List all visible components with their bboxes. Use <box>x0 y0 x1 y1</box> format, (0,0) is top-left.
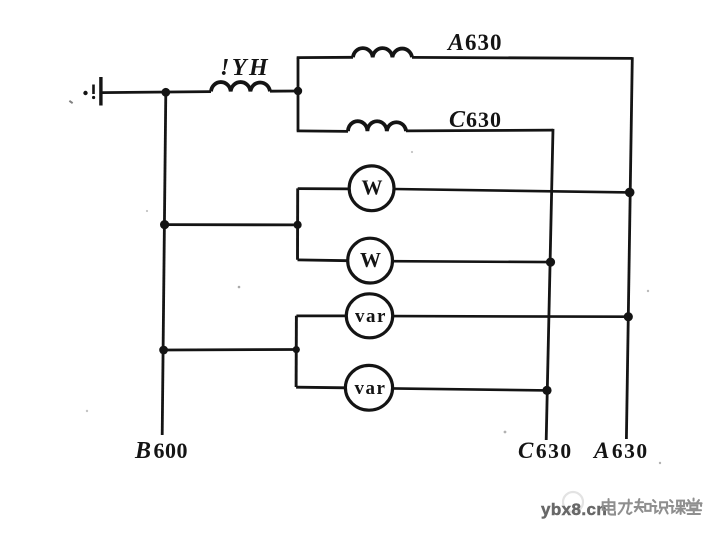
wire <box>296 386 346 389</box>
svg-text:!YH: !YH <box>220 55 270 81</box>
wire <box>393 260 551 263</box>
svg-text:var: var <box>355 306 387 327</box>
meter W2 <box>348 238 393 283</box>
wire <box>412 57 632 58</box>
node junction var1-A <box>624 312 633 321</box>
char shi <box>652 500 668 513</box>
svg-text:A630: A630 <box>446 30 503 56</box>
watermark ghost ring <box>563 492 583 512</box>
wire <box>406 129 553 133</box>
inductor A-phase CT <box>353 48 412 57</box>
wire <box>394 189 630 192</box>
wire <box>270 90 298 93</box>
wire <box>297 58 300 131</box>
terminal T1 <box>83 77 102 106</box>
scan specks <box>69 100 661 464</box>
wire <box>296 188 299 259</box>
char tang <box>686 499 702 515</box>
svg-text:W: W <box>362 176 383 200</box>
meter var1 <box>346 294 392 338</box>
wire <box>165 223 298 226</box>
wire <box>164 348 297 351</box>
node junction feeder-split <box>294 87 302 95</box>
node junction var2-C <box>542 386 551 395</box>
node junction W1-A <box>625 188 635 198</box>
char dian <box>603 499 615 515</box>
wire <box>295 316 298 387</box>
wire <box>298 187 349 190</box>
svg-text:W: W <box>360 248 381 272</box>
svg-text:A630: A630 <box>592 438 649 463</box>
node junction B-feed <box>161 88 170 97</box>
node junction W2-C <box>546 258 555 267</box>
wire B600 riser <box>162 92 166 435</box>
svg-text:C630: C630 <box>518 438 573 463</box>
wire <box>103 92 212 93</box>
wire <box>297 56 353 59</box>
watermark chinese <box>603 499 702 515</box>
wire <box>298 258 348 262</box>
wire <box>296 314 347 317</box>
meter var2 <box>345 365 392 410</box>
wire C630 riser <box>546 129 553 440</box>
wire <box>297 129 348 132</box>
node junction B-W <box>160 220 169 229</box>
svg-text:var: var <box>355 378 387 399</box>
inductor YH <box>211 82 270 91</box>
char li <box>619 500 632 514</box>
node junction var-bracket <box>293 346 300 353</box>
wire <box>392 388 547 390</box>
wire <box>392 315 629 318</box>
svg-text:B600: B600 <box>134 438 188 464</box>
inductor C-phase CT <box>348 121 406 131</box>
char zhi <box>635 499 651 512</box>
svg-text:ybx8.cn: ybx8.cn <box>541 500 607 519</box>
char ke <box>669 500 685 514</box>
wire A630 riser <box>626 57 632 439</box>
node junction W-bracket <box>294 221 302 229</box>
node junction B-var <box>159 346 168 355</box>
meter W1 <box>349 166 394 211</box>
